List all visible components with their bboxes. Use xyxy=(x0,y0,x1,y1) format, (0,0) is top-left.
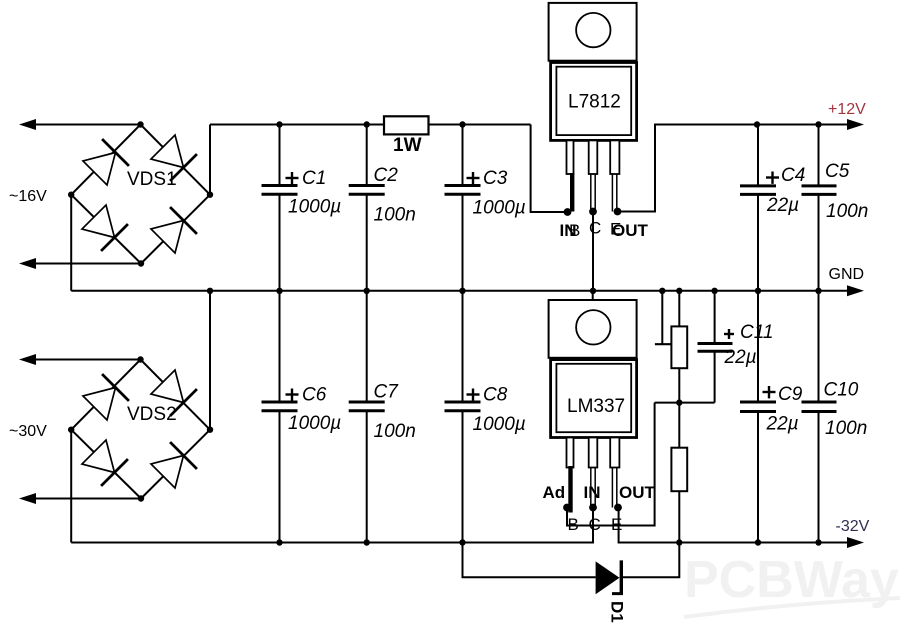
svg-text:D1: D1 xyxy=(608,601,627,623)
pin 3 (OUT) of U2 xyxy=(610,438,619,468)
wire VDS2 edge left-bottom xyxy=(71,430,141,499)
node VDS2 top xyxy=(137,356,143,362)
node VDS1 left xyxy=(68,192,74,198)
wire top rail right segment (L7812 OUT to +12V) xyxy=(618,125,849,212)
node U1 common junction xyxy=(589,208,597,216)
svg-text:OUT: OUT xyxy=(619,483,656,502)
svg-text:C1: C1 xyxy=(302,168,326,189)
diode VDS2 bottom-left xyxy=(81,439,128,486)
wire U2 Ad pin to adjust node xyxy=(567,403,655,526)
capacitor C2 xyxy=(349,125,416,291)
wire anode from negative rail xyxy=(463,543,596,578)
svg-text:~16V: ~16V xyxy=(9,188,47,205)
pin 2 (IN) of U2 xyxy=(589,438,598,468)
node U2 OUT junction xyxy=(614,504,622,512)
svg-text:C9: C9 xyxy=(778,384,803,405)
wire negative rail right segment (regulated -32V) xyxy=(619,508,848,543)
svg-text:OUT: OUT xyxy=(612,221,649,240)
node VDS2 bottom xyxy=(138,495,144,501)
svg-text:IN: IN xyxy=(584,483,601,502)
svg-text:1000µ: 1000µ xyxy=(288,197,341,218)
wire VDS1 right node up to +rail xyxy=(209,125,211,195)
wiper wire from GND xyxy=(661,291,663,344)
input terminal arrow upper ~16V xyxy=(19,119,141,130)
svg-text:LM337: LM337 xyxy=(567,396,625,417)
svg-text:22µ: 22µ xyxy=(766,414,799,435)
pin 1 (IN) of U1 xyxy=(567,140,574,174)
svg-text:C: C xyxy=(589,219,601,238)
svg-text:22µ: 22µ xyxy=(724,347,757,368)
svg-text:100n: 100n xyxy=(826,201,868,222)
node R1/R2 junction xyxy=(676,399,682,405)
wire negative rail left segment xyxy=(71,508,593,543)
diode VDS1 top-left xyxy=(82,139,129,186)
svg-text:C8: C8 xyxy=(483,385,508,406)
GND rail output arrow xyxy=(847,285,864,296)
svg-text:C7: C7 xyxy=(374,382,400,403)
svg-text:VDS2: VDS2 xyxy=(127,404,177,425)
pin 1 (Ad) of U2 xyxy=(567,438,574,468)
wire down-jog into L7812 IN pin xyxy=(531,125,568,213)
wire cathode to -32V rail xyxy=(623,543,679,578)
diode VDS2 top-right xyxy=(150,369,197,416)
bridge rectifier VDS1 xyxy=(68,121,213,266)
svg-text:IN: IN xyxy=(560,221,577,240)
-32V rail output arrow xyxy=(847,537,864,548)
node VDS2 right xyxy=(207,427,213,433)
svg-text:-32V: -32V xyxy=(836,518,870,535)
diode D1 xyxy=(463,543,680,623)
svg-text:100n: 100n xyxy=(374,421,416,442)
voltage regulator U1 L7812 (TO-220) xyxy=(549,3,649,240)
node VDS1 right xyxy=(207,192,213,198)
pin 2 (common) of U1 xyxy=(589,140,598,174)
svg-text:1W: 1W xyxy=(393,135,422,156)
resistor 1W xyxy=(384,116,429,156)
wire VDS2 left node down to negative rail xyxy=(70,430,72,543)
svg-text:C4: C4 xyxy=(781,165,805,186)
svg-text:C3: C3 xyxy=(483,168,508,189)
voltage regulator U2 LM337 (TO-220) xyxy=(543,300,656,534)
svg-text:1000µ: 1000µ xyxy=(288,413,341,434)
node VDS2 left xyxy=(68,427,74,433)
capacitor C5 xyxy=(802,125,869,291)
svg-text:+12V: +12V xyxy=(828,101,866,118)
node U1 OUT junction xyxy=(614,208,622,216)
wire VDS2 edge top-right xyxy=(141,360,211,430)
wire U1 common pin to GND rail xyxy=(592,212,594,291)
svg-text:~30V: ~30V xyxy=(9,423,47,440)
svg-text:100n: 100n xyxy=(374,205,416,226)
diode VDS2 bottom-right xyxy=(150,442,197,489)
svg-text:C6: C6 xyxy=(302,385,327,406)
svg-text:GND: GND xyxy=(829,266,865,283)
wire VDS1 edge left-top xyxy=(71,125,140,195)
resistor R2 xyxy=(671,403,687,543)
input terminal arrow upper ~30V xyxy=(19,354,141,365)
wire adjust node horizontal (to R1/R2 junction and C11) xyxy=(655,402,715,404)
svg-text:100n: 100n xyxy=(825,418,867,439)
wire VDS1 left node down to GND rail xyxy=(70,195,72,291)
+12V rail output arrow xyxy=(847,119,864,130)
capacitor C8 xyxy=(445,291,526,543)
input terminal arrow lower ~16V xyxy=(19,258,141,269)
svg-text:1000µ: 1000µ xyxy=(473,198,526,219)
pin 3 (OUT) of U1 xyxy=(610,140,619,174)
node U1 IN junction xyxy=(564,208,572,216)
node U2 IN junction xyxy=(589,504,597,512)
capacitor C6 xyxy=(262,291,342,543)
wire VDS1 edge top-right xyxy=(141,125,211,195)
capacitor C11 xyxy=(698,291,774,403)
capacitor C10 xyxy=(802,291,868,543)
wire GND rail to U2 tab xyxy=(592,291,594,300)
svg-text:C5: C5 xyxy=(825,161,850,182)
svg-text:C10: C10 xyxy=(824,380,859,401)
wire VDS1 edge left-bottom xyxy=(71,195,141,264)
node U2 Ad junction xyxy=(563,504,571,512)
diode VDS1 bottom-right xyxy=(150,207,197,254)
node VDS1 bottom xyxy=(138,260,144,266)
svg-text:C11: C11 xyxy=(740,322,773,343)
trimmer resistor R1 xyxy=(655,291,687,403)
node VDS1 top xyxy=(137,121,143,127)
diode VDS2 top-left xyxy=(82,374,129,421)
capacitor C1 xyxy=(262,125,342,291)
wire R1 bottom to junction xyxy=(678,368,680,402)
wire GND to R1 top xyxy=(678,291,680,327)
diode VDS1 bottom-left xyxy=(81,204,128,251)
junction dots on top rail xyxy=(276,121,282,127)
wire VDS1 edge bottom-right xyxy=(141,195,210,264)
capacitor C3 xyxy=(445,125,526,291)
svg-text:1000µ: 1000µ xyxy=(473,414,526,435)
capacitor C7 xyxy=(349,291,416,543)
svg-text:C2: C2 xyxy=(374,165,399,186)
capacitor C4 xyxy=(740,125,805,291)
svg-text:VDS1: VDS1 xyxy=(127,169,177,190)
bridge rectifier VDS2 xyxy=(68,356,213,501)
wire GND rail xyxy=(71,290,848,292)
svg-text:L7812: L7812 xyxy=(568,92,621,113)
junction dots on GND rail xyxy=(207,288,213,294)
wire VDS2 edge left-top xyxy=(71,360,140,430)
wire VDS2 right node up to GND rail xyxy=(209,291,211,430)
svg-text:Ad: Ad xyxy=(543,483,566,502)
WATERMARK xyxy=(684,551,900,617)
svg-text:22µ: 22µ xyxy=(766,195,799,216)
junction dots on negative rail xyxy=(276,539,282,545)
diode VDS1 top-right xyxy=(150,134,197,181)
wire top positive rail (VDS1 to L7812 IN) xyxy=(210,124,531,126)
input terminal arrow lower ~30V xyxy=(19,493,141,504)
capacitor C9 xyxy=(740,291,803,543)
wire VDS2 edge bottom-right xyxy=(141,430,210,499)
